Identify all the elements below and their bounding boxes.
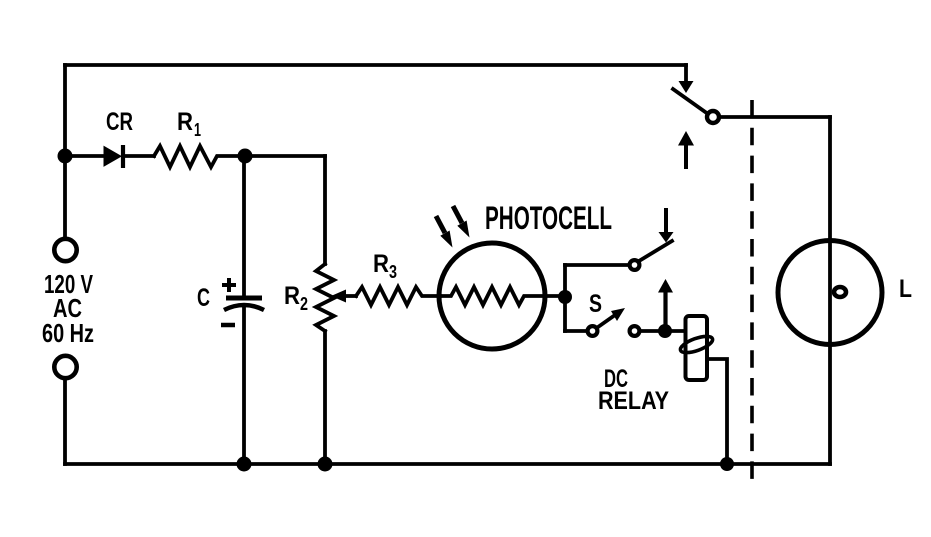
- svg-text:60 Hz: 60 Hz: [42, 318, 94, 348]
- svg-text:2: 2: [300, 294, 308, 314]
- svg-text:R: R: [177, 108, 193, 136]
- svg-text:S: S: [589, 290, 602, 318]
- svg-text:C: C: [197, 284, 210, 312]
- svg-text:RELAY: RELAY: [598, 387, 669, 415]
- svg-text:CR: CR: [106, 108, 133, 136]
- svg-text:R: R: [284, 282, 300, 310]
- svg-text:PHOTOCELL: PHOTOCELL: [485, 200, 612, 236]
- svg-text:3: 3: [389, 262, 397, 282]
- svg-text:L: L: [899, 275, 912, 303]
- svg-text:R: R: [373, 250, 389, 278]
- svg-text:1: 1: [194, 120, 201, 140]
